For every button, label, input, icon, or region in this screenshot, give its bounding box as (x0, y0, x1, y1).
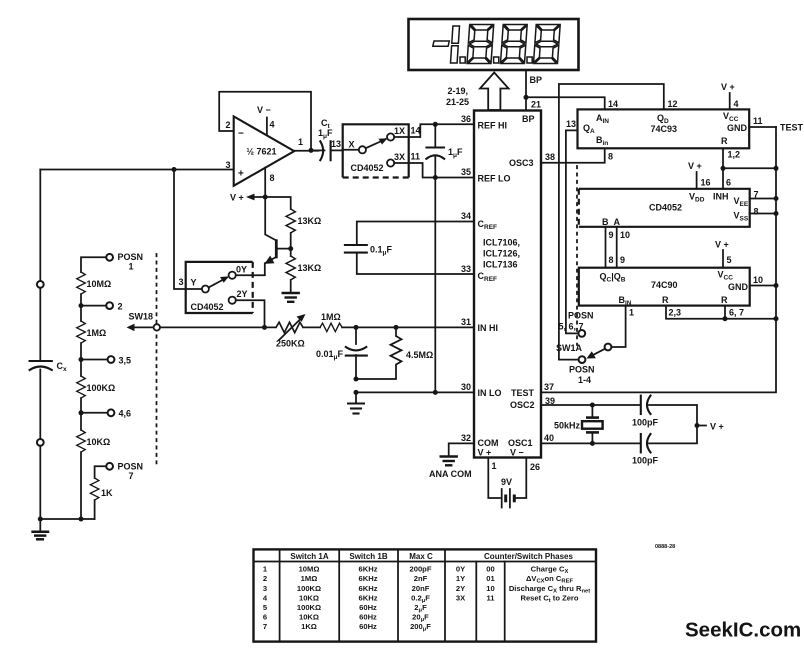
svg-text:−: − (238, 129, 244, 140)
svg-text:3: 3 (178, 277, 183, 287)
node base junction (288, 246, 293, 251)
svg-text:R: R (721, 136, 728, 146)
resistor 13K upper (286, 209, 295, 233)
wire op-amp + input rail (40, 169, 233, 171)
svg-text:GND: GND (728, 282, 749, 292)
svg-text:9: 9 (620, 255, 625, 265)
svg-text:R: R (721, 295, 728, 305)
pin 4 V- stub (266, 118, 268, 136)
svg-text:2-19,: 2-19, (447, 86, 468, 96)
svg-text:2Y: 2Y (456, 584, 465, 593)
svg-text:6KHz: 6KHz (359, 565, 378, 574)
svg-text:3: 3 (263, 584, 267, 593)
terminal Cx post lower (37, 439, 44, 446)
svg-text:7: 7 (129, 471, 134, 481)
switch arm X to 1X (366, 139, 386, 148)
node V+ oscillator (695, 423, 700, 428)
svg-text:TEST: TEST (511, 388, 535, 398)
svg-text:V +: V + (478, 448, 492, 458)
wire REF HI pin36 (409, 124, 474, 137)
svg-text:32: 32 (461, 433, 471, 443)
wire 0Y to transistor emitter (236, 274, 265, 276)
svg-text:31: 31 (461, 317, 471, 327)
svg-text:11: 11 (411, 152, 421, 162)
display digit 8 first (467, 25, 494, 64)
wire ground rail bottom left (40, 518, 94, 520)
svg-text:8: 8 (754, 207, 759, 217)
ground symbol bottom left (39, 519, 41, 531)
wire V+ to 13K divider (265, 197, 291, 209)
capacitor 0.1uF (345, 244, 367, 246)
switch arm SW1A (592, 349, 605, 356)
svg-text:½ 7621: ½ 7621 (247, 147, 277, 157)
ground below 0.01uF (348, 404, 364, 414)
switch contact 0Y (229, 272, 236, 279)
capacitor 100pF upper (640, 396, 642, 414)
svg-text:2,3: 2,3 (669, 308, 682, 318)
svg-text:1X: 1X (394, 126, 405, 136)
svg-text:REF LO: REF LO (478, 174, 511, 184)
svg-text:6KHz: 6KHz (359, 593, 378, 602)
svg-text:10KΩ: 10KΩ (299, 613, 319, 622)
terminal 3,5 (79, 357, 84, 362)
svg-text:200μF: 200μF (410, 622, 431, 633)
svg-text:11: 11 (486, 593, 495, 602)
svg-text:37: 37 (544, 382, 554, 392)
node 4.5M tap (394, 325, 399, 330)
svg-text:36: 36 (461, 114, 471, 124)
switch contact Y common (202, 286, 209, 293)
table parameter chart (254, 549, 597, 641)
wire R pins 2,3 (666, 306, 776, 319)
svg-text:5: 5 (727, 255, 732, 265)
wire input rail to chip IN HI (160, 326, 276, 328)
IC U3 74C93 counter (578, 109, 750, 148)
svg-text:26: 26 (530, 462, 540, 472)
svg-text:7: 7 (754, 190, 759, 200)
svg-text:250KΩ: 250KΩ (276, 339, 305, 349)
wire VSS pin8 (750, 213, 776, 215)
wire GND pin10 (750, 285, 776, 287)
svg-text:6KHz: 6KHz (359, 574, 378, 583)
transistor Q1 buffer (275, 239, 278, 258)
switch SW18 wiper (154, 324, 160, 330)
svg-text:ICL7136: ICL7136 (483, 260, 518, 270)
svg-text:12: 12 (668, 99, 678, 109)
V+ arrow at op-amp bias (252, 196, 265, 198)
resistor 10M (77, 272, 86, 294)
wire feedback loop pin2 to output (219, 92, 311, 151)
svg-text:SeekIC.com: SeekIC.com (685, 619, 801, 642)
switch contact 2Y (229, 297, 236, 304)
svg-text:0Y: 0Y (236, 265, 247, 275)
terminal POSN 1 (106, 254, 113, 261)
svg-text:ICL7126,: ICL7126, (483, 249, 520, 259)
wire VCC pin5 (722, 250, 724, 268)
svg-text:X: X (349, 140, 355, 150)
display decimal point 3 (527, 57, 532, 63)
svg-text:OSC1: OSC1 (508, 438, 533, 448)
wire OSC3 pin38 (541, 148, 605, 162)
svg-text:OSC2: OSC2 (510, 400, 535, 410)
svg-text:Counter/Switch Phases: Counter/Switch Phases (484, 552, 573, 561)
wire A pin10 to QB pin9 (616, 227, 618, 268)
svg-text:10KΩ: 10KΩ (87, 437, 111, 447)
svg-text:1-4: 1-4 (578, 375, 591, 385)
svg-text:100KΩ: 100KΩ (297, 603, 321, 612)
capacitor 1uF reference (434, 124, 436, 147)
wire REF LO to IN LO vertical (434, 178, 436, 393)
op-amp U2 1/2 7621 (234, 116, 295, 185)
wire X input pin13 (343, 149, 359, 151)
segment bus arrow to display (480, 73, 509, 111)
svg-text:IN HI: IN HI (478, 323, 499, 333)
wire Y input from op-amp + (174, 170, 202, 290)
svg-text:POSN: POSN (118, 462, 144, 472)
svg-text:01: 01 (486, 574, 495, 583)
wire Cx left rail upper (39, 170, 41, 281)
svg-text:SW18: SW18 (129, 312, 154, 322)
svg-text:BP: BP (530, 75, 543, 85)
display digit 1 (452, 26, 460, 43)
svg-text:10MΩ: 10MΩ (87, 279, 112, 289)
svg-text:R: R (662, 295, 669, 305)
svg-text:40: 40 (544, 433, 554, 443)
display decimal point 1 (460, 57, 465, 63)
svg-text:1KΩ: 1KΩ (301, 622, 317, 631)
capacitor Cx unknown (30, 360, 52, 362)
terminal 4,6 (79, 410, 84, 415)
svg-text:1: 1 (298, 137, 303, 147)
svg-text:100pF: 100pF (632, 456, 659, 466)
wire BP from display to pin 21 (525, 71, 527, 111)
wire B pin9 to QC pin8 (605, 227, 607, 268)
node V+ bias junction (263, 195, 268, 200)
svg-text:TEST: TEST (780, 123, 804, 133)
svg-text:V +: V + (230, 193, 244, 203)
svg-text:0Y: 0Y (456, 565, 465, 574)
svg-text:Max C: Max C (409, 552, 433, 561)
svg-text:38: 38 (545, 152, 555, 162)
resistor 1M input (320, 323, 342, 332)
svg-text:IN LO: IN LO (478, 388, 502, 398)
svg-text:14: 14 (608, 99, 618, 109)
wire VCC pin4 (729, 93, 731, 109)
switch contact 3X (387, 159, 394, 166)
svg-text:74C90: 74C90 (651, 280, 678, 290)
svg-text:2: 2 (118, 302, 123, 312)
svg-text:10: 10 (753, 275, 763, 285)
svg-text:1MΩ: 1MΩ (301, 574, 318, 583)
svg-text:10: 10 (620, 230, 630, 240)
svg-text:3X: 3X (456, 593, 465, 602)
svg-text:REF HI: REF HI (478, 121, 508, 131)
svg-text:B: B (602, 217, 609, 227)
terminal POSN 7 (106, 463, 113, 470)
svg-text:Y: Y (191, 278, 197, 288)
node + input branch (172, 167, 177, 172)
svg-text:9V: 9V (501, 477, 512, 487)
svg-text:1Y: 1Y (456, 574, 465, 583)
dashed link SW1A shaft (576, 166, 578, 345)
ground below 13K (283, 293, 299, 302)
svg-text:6, 7: 6, 7 (729, 308, 744, 318)
svg-text:21: 21 (531, 100, 541, 110)
wire QA pin13 to SW1A posn567 (566, 130, 578, 333)
node output junction (309, 148, 314, 153)
node 0.01uF tap (354, 325, 359, 330)
pin 8 stub (264, 168, 266, 197)
svg-text:BP: BP (522, 114, 535, 124)
wire IN LO pin30 (356, 392, 474, 403)
wire R pins 1,2 (722, 148, 724, 189)
svg-text:5, 6, 7: 5, 6, 7 (559, 322, 584, 332)
svg-text:8: 8 (609, 255, 614, 265)
svg-text:INH: INH (713, 192, 729, 202)
svg-text:SW1A: SW1A (556, 343, 583, 353)
svg-text:11: 11 (753, 116, 763, 126)
svg-text:1: 1 (492, 461, 497, 471)
wire output pin1 (294, 150, 318, 152)
node IN LO junction (354, 390, 359, 395)
svg-text:13KΩ: 13KΩ (298, 263, 322, 273)
display digit 8 second (500, 25, 527, 64)
node BP junction (524, 95, 529, 100)
resistor 1M ladder (77, 321, 86, 343)
svg-text:2nF: 2nF (414, 574, 428, 583)
analog switch CD4052 Y section (178, 262, 252, 313)
svg-text:21-25: 21-25 (446, 97, 469, 107)
wire 1X to pin14 (394, 136, 409, 138)
LCD display module box (409, 19, 579, 70)
potentiometer 250K (276, 322, 303, 332)
svg-text:1: 1 (129, 262, 134, 272)
switch contact 1X (387, 133, 394, 140)
svg-text:00: 00 (486, 565, 494, 574)
wire REF LO pin35 (409, 163, 474, 178)
wire CREF pin34 (357, 222, 474, 245)
svg-text:35: 35 (461, 167, 471, 177)
svg-text:+: + (238, 169, 244, 180)
wire 3X to pin11 (394, 162, 409, 164)
svg-text:200pF: 200pF (410, 565, 432, 574)
svg-text:Switch 1A: Switch 1A (290, 552, 328, 561)
svg-text:2Y: 2Y (237, 289, 248, 299)
wire 2Y to input line (236, 300, 265, 327)
display minus sign (433, 41, 450, 46)
svg-text:1,2: 1,2 (728, 150, 741, 160)
svg-text:3X: 3X (394, 152, 405, 162)
svg-text:ANA COM: ANA COM (429, 469, 472, 479)
wire VDD pin16 (696, 172, 698, 189)
svg-text:3: 3 (225, 160, 230, 170)
wire QD pin12 to SW1A posn1-4 (559, 84, 664, 360)
svg-text:6: 6 (726, 178, 731, 188)
svg-text:9: 9 (609, 230, 614, 240)
terminal Cx post upper (37, 281, 44, 288)
svg-text:1MΩ: 1MΩ (321, 312, 341, 322)
svg-text:8: 8 (270, 173, 275, 183)
svg-text:2: 2 (225, 120, 230, 130)
svg-text:100KΩ: 100KΩ (297, 584, 321, 593)
switch contact X common (359, 146, 366, 153)
node REF LO vertical at IN LO (433, 390, 438, 395)
svg-text:60Hz: 60Hz (359, 613, 377, 622)
svg-text:34: 34 (461, 211, 471, 221)
node ref lo cap tap (433, 175, 438, 180)
svg-text:POSN: POSN (118, 252, 144, 262)
wire R pins 6,7 (724, 306, 726, 319)
svg-text:CD4052: CD4052 (191, 302, 224, 312)
svg-text:V +: V + (710, 422, 724, 432)
resistor 1K (90, 478, 99, 500)
svg-text:33: 33 (461, 264, 471, 274)
switch SW1A (578, 330, 585, 337)
svg-text:V −: V − (510, 448, 524, 458)
svg-text:V +: V + (715, 240, 729, 250)
svg-text:Switch 1B: Switch 1B (349, 552, 387, 561)
IC U4 CD4052 control (579, 189, 750, 227)
svg-text:V +: V + (688, 161, 702, 171)
svg-text:50kHz: 50kHz (554, 421, 581, 431)
svg-text:60Hz: 60Hz (359, 603, 377, 612)
capacitor 0.01uF (355, 327, 357, 344)
capacitor Ct 1uF coupling (311, 149, 325, 151)
wire BP to A_in pin14 (526, 97, 605, 109)
svg-text:10MΩ: 10MΩ (299, 565, 320, 574)
wire OSC2 pin39 (541, 404, 640, 406)
svg-text:8: 8 (608, 152, 613, 162)
svg-text:0888-28: 0888-28 (655, 544, 675, 550)
svg-text:POSN: POSN (568, 311, 594, 321)
svg-text:1MΩ: 1MΩ (87, 328, 107, 338)
IC U1 ICL7106 main converter (474, 111, 541, 458)
svg-text:CD4052: CD4052 (351, 163, 384, 173)
IC U5 74C90 counter (579, 268, 750, 306)
wire TEST pin37 (541, 127, 776, 392)
svg-text:ICL7106,: ICL7106, (483, 238, 520, 248)
resistor 13K lower (290, 249, 292, 256)
svg-text:20nF: 20nF (412, 584, 430, 593)
display decimal point 2 (494, 57, 499, 63)
node ref hi cap tap (433, 122, 438, 127)
resistor 4.5M (395, 327, 397, 336)
svg-text:30: 30 (461, 382, 471, 392)
svg-text:4: 4 (270, 120, 275, 130)
svg-text:13KΩ: 13KΩ (298, 216, 322, 226)
svg-text:100KΩ: 100KΩ (87, 383, 116, 393)
crystal 50kHz (590, 403, 595, 408)
resistor 100K ladder (77, 376, 86, 398)
svg-text:1K: 1K (101, 488, 113, 498)
svg-text:16: 16 (701, 178, 711, 188)
svg-text:100pF: 100pF (632, 418, 659, 428)
svg-text:10: 10 (486, 584, 494, 593)
svg-text:COM: COM (478, 438, 499, 448)
svg-text:13: 13 (331, 139, 341, 149)
capacitor 100pF lower (640, 434, 642, 452)
svg-text:A: A (614, 217, 621, 227)
ground ANA COM (441, 457, 457, 466)
wire VEE pin7 (750, 198, 776, 200)
svg-text:3,5: 3,5 (119, 356, 132, 366)
svg-text:V −: V − (257, 105, 271, 115)
display digit 8 third (533, 25, 560, 64)
analog switch CD4052 X section (331, 124, 409, 177)
svg-text:OSC3: OSC3 (509, 158, 534, 168)
svg-text:60Hz: 60Hz (359, 622, 377, 631)
svg-text:14: 14 (411, 126, 421, 136)
svg-text:2: 2 (263, 574, 267, 583)
dashed link SW18 (156, 254, 158, 466)
svg-text:4,6: 4,6 (119, 409, 132, 419)
svg-text:6KHz: 6KHz (359, 584, 378, 593)
wire GND pin11 TEST (749, 126, 776, 128)
svg-text:74C93: 74C93 (651, 124, 678, 134)
svg-text:V +: V + (721, 82, 735, 92)
svg-text:GND: GND (727, 123, 748, 133)
resistor 10K ladder (77, 430, 86, 452)
svg-text:CD4052: CD4052 (649, 203, 682, 213)
svg-text:13: 13 (566, 119, 576, 129)
svg-text:6: 6 (263, 613, 267, 622)
wire COM pin32 (449, 443, 474, 456)
wire OSC1 pin40 (541, 442, 640, 444)
switch arm Y to 0Y (209, 278, 227, 288)
terminal 2 (79, 303, 84, 308)
svg-text:POSN: POSN (569, 365, 595, 375)
svg-text:10KΩ: 10KΩ (299, 593, 319, 602)
svg-text:4.5MΩ: 4.5MΩ (406, 350, 433, 360)
svg-text:7: 7 (263, 622, 267, 631)
wire BIN pin1 to SW1A (612, 306, 626, 347)
node 2Y junction (262, 325, 267, 330)
svg-text:1: 1 (629, 308, 634, 318)
node cap bottom junction (354, 377, 359, 382)
svg-text:4: 4 (734, 99, 739, 109)
battery 9V (488, 458, 500, 498)
